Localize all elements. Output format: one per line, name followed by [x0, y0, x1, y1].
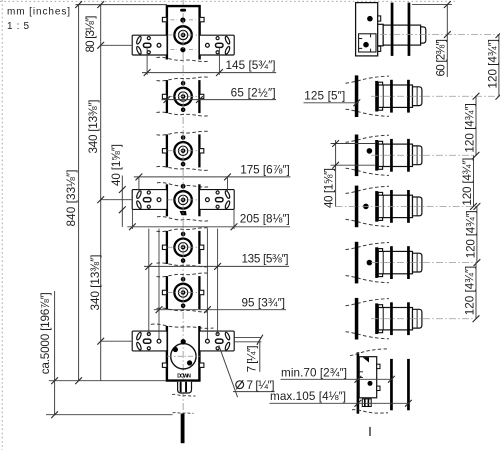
side view V5 plate dot [367, 260, 373, 266]
dim 60 line [412, 1, 452, 77]
dim 120 line v3-v4 [470, 155, 477, 210]
side view V7 break line top [350, 349, 388, 356]
valve V4 front body [157, 183, 210, 222]
svg-text:DOWN: DOWN [177, 373, 191, 379]
side view V4 unit [346, 186, 422, 228]
dim 120 line v4-v5 [474, 203, 481, 266]
valve V7 front body [167, 326, 200, 381]
valve V1 break line [157, 57, 210, 61]
page edge dotted border top [0, 0, 455, 2]
dim 120 line v1-v2 [496, 31, 500, 99]
svg-text:135 [5⅜″]: 135 [5⅜″] [242, 253, 289, 266]
dim 175 line [134, 174, 291, 192]
dim 205 line [127, 210, 290, 231]
dim 40 right line [331, 140, 376, 207]
valve V1 mounting wings [132, 35, 234, 55]
svg-text:max.105 [4⅛″]: max.105 [4⅛″] [270, 390, 346, 403]
link line chain to V1 wing [101, 44, 133, 46]
valve V7 port dot left [173, 347, 178, 352]
side view V1 centerline [380, 34, 499, 36]
svg-text:ca.5000 [196⅞″]: ca.5000 [196⅞″] [39, 292, 52, 374]
svg-text:205 [8⅛″]: 205 [8⅛″] [240, 213, 290, 226]
top reference line left [76, 4, 167, 6]
dim 7 offset lines [234, 335, 263, 372]
svg-text:7 [¼″]: 7 [¼″] [246, 345, 259, 372]
dim 125 leader [304, 99, 361, 106]
side view V5 unit [346, 242, 422, 284]
side view V2 unit [346, 75, 422, 117]
valve V7 mounting wings [132, 331, 234, 351]
valve V1 lower port dot [171, 47, 196, 52]
side view V7 wall line [357, 352, 360, 413]
svg-text:145 [5¾″]: 145 [5¾″] [226, 59, 276, 72]
valve V7 spout break line [172, 394, 196, 396]
side view V7 body [359, 357, 380, 398]
svg-text:120 [4¾″]: 120 [4¾″] [463, 266, 476, 316]
dim 95 extension lines [159, 229, 207, 340]
side view V4 centerline [336, 205, 477, 207]
svg-text:40 [1⅝″]: 40 [1⅝″] [110, 144, 123, 186]
side view V1 mounting plate [356, 3, 381, 56]
svg-text:120 [4¾″]: 120 [4¾″] [464, 210, 477, 258]
bottom reference line at valve V7 base [49, 377, 166, 384]
side view V5 centerline [371, 262, 477, 264]
valve V1 front body [167, 6, 200, 59]
diameter symbol [236, 380, 244, 389]
side view V6 centerline [371, 318, 476, 320]
tick chain at V7 slot line [97, 338, 104, 345]
svg-text:40 [1⅝″]: 40 [1⅝″] [323, 168, 336, 208]
svg-text:120 [4¾″]: 120 [4¾″] [486, 39, 499, 89]
svg-text:65 [2½″]: 65 [2½″] [231, 87, 276, 100]
valve V4 cartridge circle [168, 184, 199, 215]
dim 120 line v5-v6 [473, 263, 480, 323]
main vertical centerline of front column [182, 0, 184, 414]
dim 840 extension line [78, 5, 80, 381]
valve V2 body unit [157, 77, 210, 116]
link line chain to V7 wing [101, 340, 133, 342]
side view V7 rails [390, 359, 410, 410]
dim 95 line [154, 306, 286, 313]
side view V3 plate dot [367, 148, 373, 154]
valve V7 side tabs [162, 363, 204, 367]
page edge dotted border left [1, 0, 3, 450]
top reference tick on chain [97, 1, 104, 8]
valve V3 body unit [157, 131, 210, 170]
valve V7 thermostat circle [167, 344, 200, 369]
valve V1 top slot [180, 9, 186, 12]
svg-text:60 [2⅜″]: 60 [2⅜″] [434, 39, 447, 77]
valve V4 upper port dot [181, 184, 186, 189]
center mark below side column [369, 427, 371, 436]
left dimension chain line [100, 5, 102, 381]
side view V4 plate dot [363, 204, 369, 210]
svg-text:340 [13⅜″]: 340 [13⅜″] [89, 255, 102, 311]
svg-text:95 [3¾″]: 95 [3¾″] [242, 297, 286, 310]
side view V3 centerline [371, 154, 476, 156]
svg-text:340 [13⅜″]: 340 [13⅜″] [87, 100, 100, 154]
dim 40 wing height line [119, 176, 126, 227]
dim max.105 line [270, 400, 412, 407]
svg-text:120 [4¾″]: 120 [4¾″] [463, 103, 476, 153]
svg-text:125 [5″]: 125 [5″] [304, 90, 345, 103]
dim min.70 line [281, 376, 395, 383]
valve V7 port dot top [181, 339, 186, 344]
valve V7 break line top [151, 324, 214, 328]
svg-text:840 [33⅛″]: 840 [33⅛″] [65, 170, 78, 227]
dim 65 line [162, 96, 277, 103]
valve V1 side tabs [162, 17, 204, 21]
svg-text:80 [3⅛″]: 80 [3⅛″] [84, 16, 97, 53]
side view V1 valve body [378, 3, 426, 56]
dim 145 line [142, 48, 276, 76]
valve V7 port dot right [187, 360, 192, 365]
top reference tick on 840 line [75, 1, 82, 8]
side view V6 unit [346, 298, 422, 340]
tick chain at V4 slot line [97, 196, 104, 203]
tick chain at V1 slot line [97, 42, 104, 49]
side view V2 centerline [371, 95, 499, 97]
side view V7 lower fitting [362, 399, 371, 407]
dim 135 extension lines [149, 229, 218, 335]
hand shower drop rod [173, 413, 194, 444]
link line chain to V4 wing [101, 199, 133, 201]
valve V7 outlet spout [178, 382, 192, 393]
valve V6 body unit [157, 273, 210, 312]
side view V3 unit [346, 135, 422, 177]
valve V4 lower port dot [180, 211, 187, 215]
dim ca.5000 extension line [54, 291, 56, 415]
svg-text:120 [4¾″]: 120 [4¾″] [461, 158, 474, 206]
svg-text:1 : 5: 1 : 5 [7, 21, 29, 32]
floor reference line [46, 411, 173, 418]
leader line for hole diameter [219, 345, 275, 397]
svg-text:min.70 [2¾″]: min.70 [2¾″] [281, 366, 347, 379]
valve V5 body unit [157, 228, 210, 267]
svg-text:175 [6⅞″]: 175 [6⅞″] [240, 164, 290, 177]
svg-text:mm [inches]: mm [inches] [7, 7, 70, 18]
valve V1 cartridge circle [168, 20, 199, 51]
dim 120 line v2-v3 [473, 93, 480, 159]
valve V1 upper port dot [171, 18, 196, 23]
valve V4 mounting wings [132, 190, 234, 210]
side view V7 break line bottom [352, 410, 388, 413]
dim 135 line [144, 263, 289, 270]
